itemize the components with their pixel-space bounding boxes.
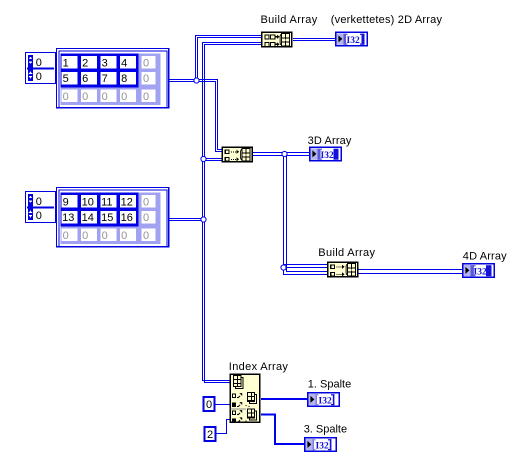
wire 4D array [359,270,463,274]
svg-text:13: 13 [62,212,74,224]
svg-text:4: 4 [121,57,127,69]
Build Array node 2 (bottom) [327,262,359,278]
svg-text:6: 6 [82,73,88,85]
svg-text:0: 0 [121,230,127,242]
svg-text:2: 2 [82,57,88,69]
svg-text:5: 5 [63,73,69,85]
constant 0 [204,397,215,411]
svg-text:2: 2 [207,429,213,441]
svg-text:4D Array: 4D Array [463,250,507,262]
svg-text:0: 0 [143,212,149,224]
wire A2 vertical trunk (2D) [169,43,261,383]
array constant A2 body [56,187,170,248]
array constant A1 index display [26,53,56,84]
svg-text:0: 0 [143,91,149,103]
svg-text:0: 0 [206,399,212,411]
constant 2 [205,427,216,441]
output subarray glyph 2 [250,411,257,420]
svg-text:12: 12 [121,196,133,208]
svg-text:0: 0 [102,230,108,242]
array constant A1 body [56,48,170,109]
index section 1 [232,394,236,399]
svg-text:7: 7 [102,73,108,85]
svg-text:Build Array: Build Array [261,14,318,26]
svg-text:0: 0 [143,73,149,85]
svg-text:Index Array: Index Array [229,361,289,373]
svg-text:0: 0 [143,57,149,69]
wire const 0 to Index Array [215,404,230,406]
wire Index Array out1 (1D) [261,398,307,400]
svg-text:8: 8 [121,73,127,85]
wire A1 to concat node in1 (2D) [169,80,222,152]
svg-text:0: 0 [36,210,42,222]
junction J2 [201,156,206,161]
junction J5 [281,265,286,270]
array constant A2 index display [26,192,56,223]
svg-text:0: 0 [36,196,42,208]
svg-text:0: 0 [82,230,88,242]
svg-text:I32: I32 [474,268,487,278]
svg-text:3D Array: 3D Array [308,135,352,147]
input array glyph [236,378,244,389]
svg-text:11: 11 [101,196,112,208]
junction J4 [282,151,287,156]
array constant A1 values [63,57,128,85]
svg-text:9: 9 [63,196,69,208]
svg-text:10: 10 [82,196,94,208]
svg-text:16: 16 [121,212,133,224]
svg-text:3. Spalte: 3. Spalte [304,424,347,436]
wire Build Array 1 to 2D terminal [293,39,335,41]
Index Array node [230,374,261,424]
terminal 1. Spalte [308,393,340,407]
svg-text:0: 0 [36,71,42,83]
svg-text:0: 0 [121,91,127,103]
svg-text:I32: I32 [319,397,332,407]
svg-text:(verkettetes) 2D Array: (verkettetes) 2D Array [331,14,443,26]
terminal (verkettetes) 2D Array [336,32,368,46]
svg-text:I32: I32 [321,151,334,161]
junction J1 [194,78,199,83]
svg-text:0: 0 [63,91,69,103]
svg-text:0: 0 [143,230,149,242]
output subarray glyph 1 [250,395,257,404]
svg-text:1: 1 [63,57,69,69]
svg-text:1. Spalte: 1. Spalte [308,378,351,390]
wire branch A1 to Build Array 1 in1 (2D) [196,36,262,81]
svg-text:0: 0 [63,230,69,242]
svg-text:0: 0 [82,91,88,103]
svg-text:0: 0 [143,196,149,208]
terminal 3D Array [310,147,342,161]
wire 3D array net [253,153,327,275]
terminal 4D Array [463,264,495,278]
svg-text:15: 15 [101,212,113,224]
divider [231,409,247,410]
wire Index Array out2 (1D) [261,415,304,445]
junction J3 [201,217,206,222]
svg-text:3: 3 [102,57,108,69]
terminal 3. Spalte [305,438,337,452]
svg-text:14: 14 [82,212,94,224]
Build Array node 1 [261,32,293,48]
wire const 2 to Index Array [215,420,230,434]
svg-text:I32: I32 [316,442,329,452]
svg-text:I32: I32 [347,36,360,46]
svg-text:Build Array: Build Array [318,247,375,259]
array constant A2 values [62,196,133,224]
svg-text:0: 0 [102,91,108,103]
index section 2 [232,411,236,416]
svg-text:0: 0 [36,57,42,69]
concat node (middle Build Array) [222,147,254,163]
